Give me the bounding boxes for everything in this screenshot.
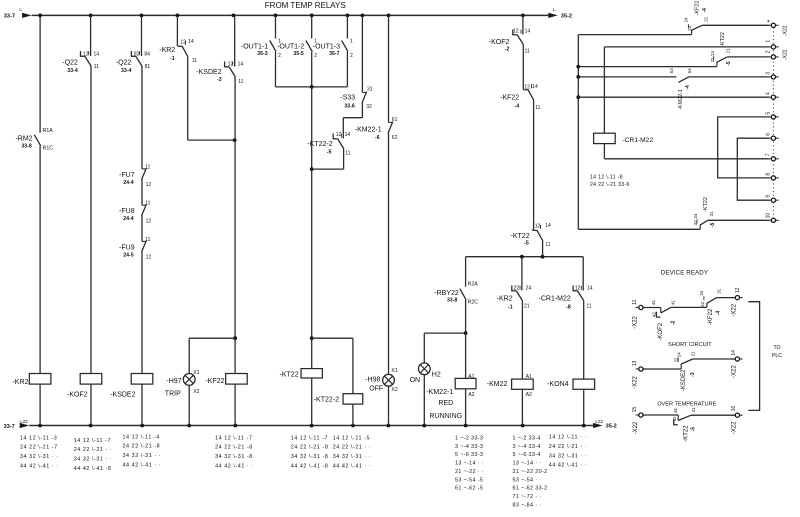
svg-text:15: 15 bbox=[632, 407, 638, 413]
lamp -H98 bbox=[383, 374, 395, 386]
pin 44 block bbox=[673, 408, 678, 413]
coil -KSDE2 bbox=[131, 374, 153, 385]
label SHORT CIRCUIT bbox=[668, 342, 712, 348]
svg-text:5 ~-6 33-3: 5 ~-6 33-3 bbox=[455, 452, 483, 458]
svg-text:21: 21 bbox=[726, 48, 731, 53]
label -KT22 -5 rotated block bbox=[683, 425, 696, 442]
wire RBY22 lower bbox=[465, 300, 467, 333]
terminal -X22:16 bbox=[732, 413, 742, 417]
svg-text:41: 41 bbox=[691, 407, 696, 412]
pin 21 W2 bbox=[726, 48, 731, 53]
junction bottom bus bbox=[310, 424, 314, 428]
pin A2 KM22-1 bbox=[468, 392, 474, 398]
wire CR1 ctc upper bbox=[582, 257, 584, 291]
wire row3 seg1 bbox=[644, 414, 679, 416]
terminal strip dotted line bbox=[772, 28, 774, 219]
label -KOF2 -2 rotated bbox=[658, 321, 677, 341]
svg-text:-2: -2 bbox=[505, 46, 510, 52]
pin label terminal 5 bbox=[765, 112, 771, 115]
svg-text:R1A: R1A bbox=[43, 128, 54, 134]
terminal -X22:* bbox=[768, 23, 778, 27]
terminal -X22:14 bbox=[732, 357, 742, 361]
pin 42 bbox=[652, 312, 657, 317]
svg-text:14: 14 bbox=[525, 28, 531, 34]
label TO PLC bbox=[772, 345, 782, 359]
pin 11 bbox=[94, 64, 99, 70]
coil -KM22-1 (A1/A2) bbox=[455, 378, 476, 388]
label -RM2 33-8 bbox=[15, 136, 32, 150]
pin 11 KOF2 bbox=[525, 48, 530, 54]
pin 12 FU9 bbox=[146, 255, 152, 261]
svg-text:21: 21 bbox=[703, 16, 708, 21]
coil -KM22 bbox=[512, 379, 534, 389]
wire W1 bbox=[604, 46, 768, 48]
junction top bus bbox=[521, 14, 525, 18]
svg-text:1: 1 bbox=[350, 38, 353, 44]
wire W4 bbox=[578, 96, 769, 98]
svg-text:44 42 \-41 -8: 44 42 \-41 -8 bbox=[74, 466, 112, 472]
svg-text:-5: -5 bbox=[327, 149, 332, 155]
svg-text:-KT22: -KT22 bbox=[720, 32, 726, 47]
contact -FU9 (11/12) bbox=[142, 241, 147, 253]
svg-text:33-8: 33-8 bbox=[447, 298, 457, 304]
pin 14 KF22 bbox=[532, 84, 538, 90]
svg-text:24 22 \-21 -8: 24 22 \-21 -8 bbox=[291, 445, 329, 451]
wire KT22-2 jog to col7 bbox=[312, 168, 344, 170]
svg-text:-5: -5 bbox=[524, 241, 529, 247]
cross-ref table -KT22 bbox=[291, 435, 329, 469]
coil -KON4 bbox=[573, 379, 595, 389]
pin 31 block bbox=[717, 288, 722, 293]
svg-text:31: 31 bbox=[709, 211, 714, 216]
svg-text:-KT22: -KT22 bbox=[683, 425, 689, 442]
svg-text:-CR1-M22: -CR1-M22 bbox=[623, 137, 654, 144]
svg-text:X2: X2 bbox=[193, 389, 199, 395]
pin label terminal 10 bbox=[765, 213, 771, 219]
pin 82 bbox=[134, 52, 140, 58]
wire CR1 coil to W7 bbox=[603, 144, 605, 159]
svg-text:-KF22: -KF22 bbox=[500, 95, 519, 102]
junction top bus bbox=[140, 14, 144, 18]
contact -KT22 (12/14/11) bbox=[532, 225, 542, 241]
wire W2 right segment bbox=[727, 56, 769, 58]
svg-text:-RM2: -RM2 bbox=[15, 136, 32, 143]
wire KON4 to bus bbox=[583, 389, 585, 425]
svg-text:2: 2 bbox=[765, 50, 771, 53]
pin label terminal 7 bbox=[765, 153, 771, 156]
contact -KT22 (42/44/41) horizontal block bbox=[674, 415, 691, 425]
svg-text:7: 7 bbox=[765, 153, 771, 156]
svg-text:-H97: -H97 bbox=[166, 378, 181, 385]
wire KR2-2 lower bbox=[521, 301, 523, 380]
svg-text:2: 2 bbox=[350, 53, 353, 59]
svg-text:34: 34 bbox=[699, 290, 704, 295]
svg-text:-KSDE2: -KSDE2 bbox=[196, 69, 221, 76]
pin 53 bbox=[669, 68, 674, 73]
svg-text:14: 14 bbox=[188, 39, 194, 45]
svg-text:42: 42 bbox=[672, 416, 677, 421]
svg-text:-Q22: -Q22 bbox=[116, 59, 132, 66]
label -KSDE2 -3 rotated bbox=[681, 369, 696, 391]
coil -CR1-M22 bbox=[594, 133, 616, 143]
label -KSDE2 -3 bbox=[196, 69, 221, 83]
svg-text:-KF22: -KF22 bbox=[708, 308, 714, 325]
svg-text:33-6: 33-6 bbox=[344, 103, 354, 109]
pin A2 KM22 bbox=[526, 392, 532, 398]
label -KT22-2 coil bbox=[314, 396, 339, 403]
svg-text:L22: L22 bbox=[20, 419, 28, 424]
pin A1 KM22-1 bbox=[468, 374, 474, 380]
wire column1 lower bbox=[39, 146, 41, 374]
svg-text:14: 14 bbox=[94, 52, 100, 58]
svg-text:12: 12 bbox=[180, 40, 186, 46]
contact -CR1-M22 (12/14/11) bbox=[573, 286, 584, 301]
wire column5 to bus bbox=[234, 384, 236, 425]
svg-text:11: 11 bbox=[525, 48, 530, 54]
svg-text:24-4: 24-4 bbox=[123, 180, 133, 186]
svg-text:14 12 \-11 · ·: 14 12 \-11 · · bbox=[549, 435, 587, 441]
lamp -H2 bbox=[418, 363, 430, 375]
svg-text:-FU8: -FU8 bbox=[119, 208, 135, 215]
pin 11 KT22 bbox=[545, 242, 550, 248]
svg-text:-S33: -S33 bbox=[340, 95, 355, 102]
wire row2 seg1 bbox=[644, 368, 682, 370]
label -KT22-2 -5 bbox=[307, 141, 332, 155]
label -KT22 coil bbox=[280, 371, 299, 378]
junction feeder A y97.2 bbox=[576, 95, 580, 99]
label -X22 t12 rotated bbox=[732, 303, 738, 316]
svg-text:DEVICE READY: DEVICE READY bbox=[661, 269, 708, 276]
junction col7 y338 bbox=[310, 336, 314, 340]
pin 34 block bbox=[699, 290, 704, 295]
contact -Q22 (82/84/81) bbox=[131, 51, 142, 66]
wire column5 upper bbox=[234, 15, 236, 66]
svg-text:14 12 \-11 -7: 14 12 \-11 -7 bbox=[215, 435, 252, 441]
junction col7 y169 bbox=[310, 167, 314, 171]
wire W3 left segment bbox=[578, 76, 676, 78]
contact -Q22 (12/14/11) bbox=[81, 51, 92, 66]
pin 14 CR1 bbox=[587, 286, 593, 292]
svg-text:6: 6 bbox=[765, 133, 771, 136]
svg-text:ON: ON bbox=[410, 377, 421, 384]
pin X2 H98 bbox=[391, 387, 397, 393]
terminal -X22:13 bbox=[636, 367, 646, 371]
svg-text:R2A: R2A bbox=[468, 282, 479, 288]
wire column4 jog to KSDE2 column bbox=[188, 139, 235, 141]
junction distribution KR2 tap bbox=[520, 255, 524, 259]
terminal -X22:3 bbox=[768, 75, 778, 79]
svg-text:44 42 \-41 -8: 44 42 \-41 -8 bbox=[291, 464, 329, 470]
svg-text:11: 11 bbox=[238, 79, 243, 85]
pin 11 KSDE2 bbox=[238, 79, 243, 85]
pin 1 OUT1-3 bbox=[350, 38, 353, 44]
svg-text:-2: -2 bbox=[670, 321, 676, 326]
label -H98 OFF bbox=[365, 376, 383, 392]
svg-text:12: 12 bbox=[735, 287, 741, 293]
svg-text:14 12 \-11 -4: 14 12 \-11 -4 bbox=[123, 434, 160, 440]
pin 11 KT22-2 bbox=[345, 151, 350, 157]
label -CR1-M22 coil bbox=[623, 137, 654, 144]
bottom bus left arrow bbox=[20, 423, 30, 428]
svg-text:-KOF2: -KOF2 bbox=[489, 39, 510, 46]
pin label terminal 4 bbox=[765, 92, 771, 95]
svg-text:11: 11 bbox=[145, 201, 150, 207]
svg-text:44 42 \-41 · ·: 44 42 \-41 · · bbox=[549, 463, 588, 469]
wire KM22-1 coil upper bbox=[465, 333, 467, 378]
pin label terminal 2 bbox=[765, 50, 771, 53]
svg-text:24: 24 bbox=[710, 51, 715, 56]
wire KM22 coil to bus bbox=[521, 389, 523, 425]
wire bottom bus L22 bbox=[29, 425, 593, 427]
svg-text:R2C: R2C bbox=[468, 300, 479, 306]
svg-text:12: 12 bbox=[146, 182, 152, 188]
svg-text:24 22 \-21 · ·: 24 22 \-21 · · bbox=[74, 447, 113, 453]
svg-text:-OUT1-3: -OUT1-3 bbox=[313, 43, 340, 50]
pin 12 KR2 bbox=[180, 40, 186, 46]
svg-text:21 ~-22 20-2: 21 ~-22 20-2 bbox=[513, 469, 548, 475]
pin 34 bbox=[693, 213, 698, 218]
node L22 bottom bus left label 33-7 bbox=[4, 419, 29, 430]
svg-text:-X22: -X22 bbox=[633, 421, 639, 434]
junction bottom bus bbox=[422, 424, 426, 428]
pin X2 H97 bbox=[193, 389, 199, 395]
wire column3 seg2 bbox=[141, 66, 143, 169]
junction bottom bus bbox=[233, 424, 237, 428]
svg-text:11: 11 bbox=[586, 304, 591, 310]
svg-text:RUNNING: RUNNING bbox=[430, 413, 463, 420]
label -KF22 -4 rotated block bbox=[708, 308, 722, 325]
svg-text:-H98: -H98 bbox=[365, 376, 380, 383]
svg-text:14: 14 bbox=[238, 61, 244, 67]
wire column1 upper bbox=[39, 15, 41, 132]
svg-text:-KSDE2: -KSDE2 bbox=[681, 369, 687, 391]
svg-text:-KT22: -KT22 bbox=[511, 233, 530, 240]
junction top bus bbox=[232, 14, 236, 18]
pin 11 FU9 bbox=[145, 237, 150, 243]
wire W* left segment bbox=[578, 34, 691, 36]
svg-text:33-4: 33-4 bbox=[121, 68, 131, 74]
label -KON4 coil bbox=[547, 381, 569, 388]
wire chain mid2 bbox=[532, 100, 533, 230]
pin 14 KT22-2 bbox=[345, 132, 351, 138]
svg-text:RED: RED bbox=[438, 400, 453, 407]
label -X22 t13 rotated bbox=[633, 375, 639, 388]
wire KM22-1 coil to bus bbox=[465, 389, 467, 426]
svg-text:14: 14 bbox=[532, 84, 538, 90]
svg-text:A1: A1 bbox=[468, 374, 474, 380]
wire bracket TO PLC bbox=[748, 302, 759, 411]
contact -KT22 (22/24/21) horizontal bbox=[714, 56, 728, 66]
svg-text:22: 22 bbox=[710, 57, 715, 62]
contact -RBY22 (R2A/R2C) bbox=[460, 289, 466, 300]
pin 81 bbox=[145, 64, 151, 70]
svg-text:24 22 \-21 -8: 24 22 \-21 -8 bbox=[215, 445, 253, 451]
junction top bus bbox=[361, 14, 365, 18]
svg-text:-KR2: -KR2 bbox=[12, 379, 28, 386]
wire column10 to bus bbox=[388, 386, 390, 425]
label -X22 t16 rotated bbox=[732, 421, 738, 434]
wire RBY22 upper bbox=[465, 257, 467, 287]
svg-text:14: 14 bbox=[731, 350, 737, 356]
svg-text:24 22 \-21 · ·: 24 22 \-21 · · bbox=[549, 444, 588, 450]
svg-text:61 ~-62 33-2: 61 ~-62 33-2 bbox=[513, 486, 548, 492]
pin 84 bbox=[144, 52, 150, 58]
svg-text:TRIP: TRIP bbox=[165, 391, 181, 398]
label -KF22 -4 bbox=[500, 95, 519, 110]
svg-text:35-3: 35-3 bbox=[257, 51, 267, 57]
terminal -X22:10 bbox=[768, 218, 778, 222]
cross-ref table -KOF2 bbox=[74, 438, 113, 472]
svg-text:-FU7: -FU7 bbox=[119, 172, 135, 179]
svg-text:31: 31 bbox=[367, 87, 373, 93]
svg-text:21: 21 bbox=[691, 351, 696, 356]
svg-text:L: L bbox=[19, 7, 22, 12]
svg-text:33-8: 33-8 bbox=[21, 143, 31, 149]
pin 22 bbox=[514, 286, 520, 292]
svg-text:11: 11 bbox=[145, 164, 150, 170]
pin R2C bbox=[468, 300, 479, 306]
pin 14 KR2 bbox=[188, 39, 194, 45]
label -KM22-1 -4 rotated bbox=[678, 85, 691, 110]
wire W10 right segment bbox=[708, 219, 769, 221]
pin 22 block bbox=[674, 357, 679, 362]
svg-text:PLC: PLC bbox=[772, 353, 782, 359]
pin label terminal 16 bbox=[731, 406, 737, 412]
coil -KOF2 bbox=[80, 374, 102, 385]
svg-text:35-2: 35-2 bbox=[606, 424, 617, 430]
junction bottom bus bbox=[38, 424, 42, 428]
junction H2/KM22 branch bbox=[464, 331, 468, 335]
pin label terminal 12 bbox=[735, 287, 741, 293]
terminal -X22:5 bbox=[768, 115, 778, 119]
svg-text:-4: -4 bbox=[715, 311, 721, 316]
contact -KT22 (32/34/31) horizontal bbox=[697, 219, 708, 229]
cross-ref table CR1-M22 bbox=[590, 175, 630, 189]
wire top bus L bbox=[32, 14, 549, 16]
pin 12 bbox=[83, 52, 89, 58]
junction top bus bbox=[274, 14, 278, 18]
svg-text:24 22 \-21 -7: 24 22 \-21 -7 bbox=[20, 445, 58, 451]
terminal mark * bbox=[768, 20, 770, 22]
terminal -X22:1 bbox=[768, 45, 778, 49]
svg-text:12: 12 bbox=[146, 255, 152, 261]
pin 1 OUT1-1 bbox=[278, 38, 281, 44]
wire column3 to bus bbox=[141, 384, 143, 425]
label -X22 t15 rotated bbox=[633, 421, 639, 434]
svg-text:44 42 \-41 · ·: 44 42 \-41 · · bbox=[333, 464, 372, 470]
svg-text:44 42 \-41 · ·: 44 42 \-41 · · bbox=[20, 464, 59, 470]
pin 61 bbox=[392, 117, 398, 123]
contact -OUT1-2 (1/2) bbox=[306, 41, 312, 52]
svg-text:H2: H2 bbox=[432, 371, 441, 378]
terminal -X22:9 bbox=[768, 198, 778, 202]
pin label terminal 9 bbox=[765, 195, 771, 198]
junction top bus bbox=[387, 14, 391, 18]
junction bottom bus bbox=[351, 424, 355, 428]
pin R1C bbox=[43, 146, 54, 152]
svg-text:FROM TEMP RELAYS: FROM TEMP RELAYS bbox=[265, 1, 346, 10]
svg-text:34 32 \-31 -8: 34 32 \-31 -8 bbox=[291, 454, 329, 460]
svg-text:-OUT1-1: -OUT1-1 bbox=[241, 43, 268, 50]
svg-text:-4: -4 bbox=[702, 8, 708, 13]
svg-text:44: 44 bbox=[651, 300, 656, 305]
cross-ref table -KM22 coil bbox=[513, 436, 548, 509]
svg-text:44 42 \-41 · ·: 44 42 \-41 · · bbox=[123, 463, 162, 469]
node L top bus right label 35-2 bbox=[553, 7, 572, 20]
terminal -X22:7 bbox=[768, 157, 778, 161]
pin 21 W* bbox=[703, 16, 708, 21]
cross-ref table -KF22 bbox=[215, 435, 254, 469]
pin 12 FU7 bbox=[146, 182, 152, 188]
terminal -X22:2 bbox=[768, 55, 778, 59]
contact -OUT1-3 (1/2) bbox=[342, 41, 348, 52]
pin X1 H98 bbox=[391, 368, 397, 374]
pin label terminal 6 bbox=[765, 133, 771, 136]
svg-text:-OUT1-2: -OUT1-2 bbox=[277, 43, 304, 50]
svg-text:35-7: 35-7 bbox=[329, 51, 339, 57]
svg-text:OFF: OFF bbox=[369, 385, 383, 392]
cross-ref table -KSDE2 bbox=[123, 434, 162, 468]
svg-text:24 22 \-21 33-6: 24 22 \-21 33-6 bbox=[590, 182, 630, 188]
wire branch KT22-2 bbox=[312, 337, 353, 339]
label -FU8 24-4 bbox=[119, 208, 135, 222]
svg-text:1 ~-2 33-4: 1 ~-2 33-4 bbox=[513, 436, 541, 442]
svg-text:1 ~-2 33-3: 1 ~-2 33-3 bbox=[455, 436, 483, 442]
pin 32 bbox=[693, 220, 698, 225]
wire W7 bbox=[604, 158, 768, 160]
svg-text:X1: X1 bbox=[391, 368, 397, 374]
svg-text:53 ~-54 -5: 53 ~-54 -5 bbox=[455, 477, 483, 483]
svg-text:2: 2 bbox=[314, 53, 317, 59]
svg-text:1: 1 bbox=[765, 40, 771, 43]
svg-text:24: 24 bbox=[683, 17, 688, 22]
junction bottom bus bbox=[582, 424, 586, 428]
contact -KOF2 (12/14/11) bbox=[513, 30, 524, 45]
junction bottom bus bbox=[464, 424, 468, 428]
wire link 6-9 bbox=[737, 138, 769, 200]
wire W3 right segment bbox=[689, 76, 768, 78]
svg-text:5: 5 bbox=[765, 112, 771, 115]
wire OUT1-1 lower bbox=[275, 52, 277, 87]
svg-text:24-5: 24-5 bbox=[123, 252, 133, 258]
contact -FU7 (11/12) bbox=[142, 168, 147, 180]
svg-text:34 32 \-31 · ·: 34 32 \-31 · · bbox=[333, 454, 372, 460]
label -OUT1-2 35-5 bbox=[277, 43, 304, 57]
svg-text:11: 11 bbox=[632, 299, 638, 304]
wire KT22-2 ctc lower bbox=[343, 148, 345, 169]
wire column3 seg3 bbox=[141, 179, 143, 205]
pin 12 KT22-2 bbox=[336, 132, 342, 138]
svg-text:35-2: 35-2 bbox=[561, 14, 572, 20]
contact -KOF2 (42/44/41) horizontal bbox=[656, 307, 671, 317]
node L top bus left label 33-7 bbox=[4, 7, 23, 20]
wire vertical feeder B bbox=[603, 47, 605, 133]
pin 14 KT22 bbox=[545, 223, 551, 229]
wire W* right segment bbox=[702, 24, 769, 26]
svg-text:24 22 \-21 · ·: 24 22 \-21 · · bbox=[333, 445, 372, 451]
svg-text:-1: -1 bbox=[508, 305, 513, 311]
pin 11 KR2 bbox=[192, 58, 197, 64]
svg-text:-FU9: -FU9 bbox=[119, 244, 135, 251]
wire column7 mid2 bbox=[311, 169, 313, 338]
svg-text:-KR2: -KR2 bbox=[497, 296, 513, 303]
svg-text:-X22: -X22 bbox=[633, 315, 639, 328]
svg-text:-KOF2: -KOF2 bbox=[658, 322, 664, 340]
pin 21 bbox=[524, 304, 530, 310]
label -Q22 33-4 (second) bbox=[116, 59, 132, 74]
svg-text:2: 2 bbox=[278, 53, 281, 59]
svg-text:3 ~-4 33-4: 3 ~-4 33-4 bbox=[513, 444, 541, 450]
